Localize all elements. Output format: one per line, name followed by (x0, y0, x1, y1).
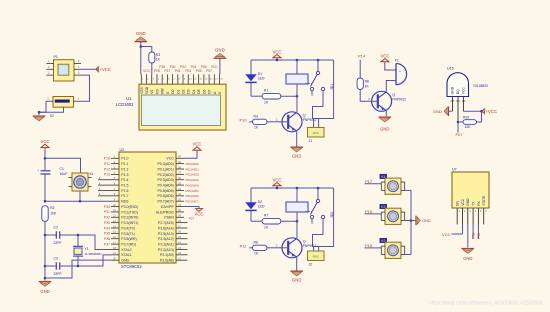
wire RES net (45, 200, 111, 202)
power VCC (relay JD1) (272, 50, 281, 61)
svg-text:R2: R2 (50, 206, 54, 210)
svg-text:PSEN: PSEN (164, 216, 174, 220)
ground (LCD K) (214, 48, 227, 75)
svg-text:P03(AD3): P03(AD3) (186, 178, 199, 182)
svg-text:P1.0: P1.0 (121, 157, 128, 161)
net label P11 (240, 244, 253, 249)
capacitor C1 (37, 167, 67, 201)
svg-text:P10: P10 (104, 157, 110, 161)
net label P10 (239, 118, 252, 123)
svg-text:P2.1(A9): P2.1(A9) (160, 253, 174, 257)
svg-text:P2.4(A12): P2.4(A12) (158, 237, 174, 241)
svg-text:F1: F1 (395, 58, 399, 62)
svg-text:P27: P27 (455, 132, 463, 137)
connector J2 (308, 251, 325, 266)
resistor R2 (42, 206, 57, 281)
svg-text:VCC: VCC (194, 211, 203, 216)
power VCC (MCU pin 40) (184, 141, 202, 158)
svg-text:P3.7(RD): P3.7(RD) (121, 242, 136, 246)
wire buzzer to collector (386, 81, 396, 93)
wire buttons GND rail (410, 190, 416, 254)
svg-text:P15: P15 (365, 243, 373, 248)
svg-text:1K: 1K (365, 85, 370, 89)
MCU right net labels AD0-AD7 (186, 162, 199, 204)
power VCC (buzzer) (380, 54, 396, 70)
svg-text:22PF: 22PF (54, 272, 62, 276)
svg-text:R7: R7 (264, 213, 268, 217)
svg-text:Y1: Y1 (85, 247, 89, 251)
net label P31 (U7 TX) (472, 225, 476, 240)
svg-text:J1: J1 (309, 139, 313, 143)
svg-text:P2.2(A10): P2.2(A10) (158, 248, 174, 252)
ground (MCU) (39, 282, 52, 294)
svg-text:+: + (399, 69, 401, 73)
resistor R6 (253, 241, 283, 256)
svg-text:+VCC: +VCC (100, 67, 111, 72)
svg-text:STATE: STATE (482, 195, 486, 206)
svg-text:VCC: VCC (143, 69, 150, 73)
svg-text:V0: V0 (150, 90, 154, 94)
svg-text:P05(AD5): P05(AD5) (186, 189, 199, 193)
svg-text:C1: C1 (60, 167, 64, 171)
resistor R8 (357, 78, 372, 101)
wire P1 pin5 to S2 (80, 75, 90, 101)
svg-text:K1: K1 (90, 172, 94, 176)
MCU P14-P17 wires (98, 177, 111, 196)
power VCC (U7) (442, 225, 462, 238)
transistor Q3 (372, 91, 407, 111)
push button K3 (380, 204, 405, 224)
svg-text:RES: RES (121, 200, 129, 204)
svg-text:P07: P07 (206, 69, 212, 73)
wire XTAL2 (78, 235, 111, 249)
buzzer F1 (395, 58, 407, 84)
wire S2 to ground (38, 101, 64, 115)
MCU left net labels P10-P13 (104, 157, 110, 177)
power +VCC (P1 pin 4) (81, 67, 111, 72)
svg-text:P36: P36 (104, 237, 110, 241)
wire contacts to connector (313, 60, 334, 128)
wire VCC rail (251, 187, 334, 190)
wire XTAL1 (78, 255, 111, 266)
svg-text:P13: P13 (104, 173, 110, 177)
svg-text:P2.3(A11): P2.3(A11) (158, 242, 174, 246)
svg-text:J2: J2 (309, 262, 313, 266)
svg-text:S2: S2 (50, 114, 54, 118)
svg-text:GND: GND (136, 31, 146, 36)
svg-text:R20: R20 (463, 115, 469, 119)
svg-text:P16: P16 (365, 209, 373, 214)
svg-text:DS18B20: DS18B20 (474, 84, 489, 88)
svg-text:P3.5(T1): P3.5(T1) (121, 232, 135, 236)
svg-text:P30: P30 (477, 233, 481, 239)
svg-text:RS: RS (155, 88, 159, 93)
LCD net labels (143, 65, 218, 73)
svg-text:10uF: 10uF (60, 172, 68, 176)
svg-text:GND: GND (40, 289, 49, 294)
connector P1 (47, 55, 82, 81)
connector J1 (308, 128, 325, 143)
svg-text:DQ: DQ (456, 89, 460, 94)
resistor R4 (253, 115, 283, 130)
net label P27 (455, 122, 463, 137)
svg-text:P1.5: P1.5 (121, 184, 128, 188)
capacitor C3 (45, 256, 78, 275)
svg-text:1K: 1K (264, 100, 269, 104)
svg-text:LED: LED (258, 205, 265, 209)
relay coil JD1 (286, 60, 308, 112)
LED D2 (245, 188, 265, 221)
power VCC (relay JD2) (272, 178, 281, 189)
svg-text:R4: R4 (254, 115, 258, 119)
svg-text:GND: GND (121, 259, 129, 263)
relay contacts JD2 (306, 188, 335, 224)
svg-text:VCC: VCC (442, 232, 451, 237)
svg-text:C2: C2 (54, 225, 58, 229)
resistor R3 (141, 47, 161, 75)
svg-text:P27: P27 (165, 69, 171, 73)
svg-text:D2: D2 (182, 89, 186, 93)
push button K1 (reset) (69, 172, 94, 203)
svg-text:P3.6(WR): P3.6(WR) (121, 237, 136, 241)
svg-text:D6: D6 (202, 89, 206, 93)
svg-text:VDD: VDD (145, 86, 149, 94)
svg-text:P06(AD6): P06(AD6) (186, 194, 199, 198)
svg-text:P30: P30 (104, 205, 110, 209)
wire contacts to connector (313, 188, 334, 251)
module U7 (452, 168, 489, 208)
wire U7 GND (467, 225, 469, 248)
svg-text:XTAL1: XTAL1 (121, 253, 131, 257)
MCU pins (111, 156, 188, 261)
ground (Q3) (379, 117, 392, 131)
svg-text:P31: P31 (472, 233, 476, 239)
svg-text:P3.4(T0): P3.4(T0) (121, 226, 135, 230)
svg-text:VCC: VCC (40, 139, 49, 144)
svg-text:RW: RW (161, 87, 165, 93)
ground (Q1) (290, 147, 303, 158)
wire emitter to ground (296, 131, 298, 147)
svg-text:+: + (37, 169, 39, 173)
svg-text:D2: D2 (258, 200, 262, 204)
svg-text:22PF: 22PF (54, 241, 62, 245)
relay coil JD2 (286, 188, 308, 238)
ground (DS18B20) (433, 106, 453, 116)
svg-text:P04(AD4): P04(AD4) (186, 183, 199, 187)
svg-text:VCC: VCC (192, 141, 201, 146)
wire MCU GND (45, 260, 111, 278)
svg-text:U15: U15 (447, 66, 454, 70)
svg-text:P2.6(A14): P2.6(A14) (158, 226, 174, 230)
ground (LCD VSS) (135, 31, 148, 74)
svg-text:P34: P34 (104, 226, 110, 230)
power VCC (EA/VPP) (184, 207, 204, 221)
svg-text:P1: P1 (54, 55, 58, 59)
svg-text:11.0592MHz: 11.0592MHz (85, 252, 103, 256)
svg-text:P14: P14 (358, 54, 366, 59)
svg-text:P2.7(A15): P2.7(A15) (158, 221, 174, 225)
MCU left net labels P30-P37 (104, 205, 110, 247)
svg-text:P33: P33 (104, 221, 110, 225)
ground (S2) (33, 116, 46, 121)
svg-text:+VCC: +VCC (486, 109, 497, 114)
svg-text:PIN2: PIN2 (313, 255, 319, 259)
svg-text:P11: P11 (104, 162, 110, 166)
resistor R1 (251, 88, 298, 104)
svg-text:P2.5(A13): P2.5(A13) (158, 232, 174, 236)
svg-text:1K: 1K (264, 225, 269, 229)
transistor Q2 (282, 238, 317, 258)
svg-text:R8: R8 (365, 80, 369, 84)
svg-text:R6: R6 (254, 241, 258, 245)
svg-text:U2: U2 (120, 148, 125, 152)
svg-text:R3: R3 (156, 53, 160, 57)
svg-text:EN: EN (456, 201, 460, 206)
svg-text:D4: D4 (192, 89, 196, 93)
svg-text:P03: P03 (185, 69, 191, 73)
svg-text:ALE/PROG: ALE/PROG (156, 210, 174, 214)
svg-text:P17: P17 (365, 179, 373, 184)
svg-text:10K: 10K (465, 125, 472, 129)
svg-text:P0.2(AD2): P0.2(AD2) (157, 173, 173, 177)
svg-text:LCD1602: LCD1602 (116, 102, 134, 107)
wire VCC rail (251, 59, 334, 62)
svg-text:XTAL2: XTAL2 (121, 248, 131, 252)
svg-text:RX: RX (477, 200, 481, 205)
svg-text:10K: 10K (50, 211, 57, 215)
U7 pins (457, 208, 487, 225)
svg-text:P1.2: P1.2 (121, 167, 128, 171)
svg-text:GND: GND (215, 48, 225, 53)
svg-text:STC89C52: STC89C52 (121, 264, 142, 269)
svg-text:D0: D0 (171, 89, 175, 93)
svg-text:GND: GND (466, 198, 470, 206)
svg-text:VSS: VSS (140, 86, 144, 93)
svg-text:C3: C3 (54, 256, 58, 260)
svg-text:PNP9012: PNP9012 (392, 98, 406, 102)
svg-text:PNP9012: PNP9012 (303, 118, 317, 122)
svg-text:P05: P05 (196, 69, 202, 73)
svg-text:D1: D1 (258, 72, 262, 76)
crystal Y1 11.0592MHz (73, 234, 102, 268)
LCD pins (141, 74, 223, 84)
push button K4 (380, 174, 405, 194)
svg-text:U7: U7 (452, 168, 457, 172)
LED D1 (245, 60, 265, 96)
svg-text:P0.0(AD0): P0.0(AD0) (157, 162, 173, 166)
svg-text:GND: GND (463, 256, 472, 261)
svg-text:VCC: VCC (380, 54, 389, 59)
svg-text:P0.6(AD6): P0.6(AD6) (157, 194, 173, 198)
svg-text:GND: GND (433, 109, 442, 114)
svg-text:P01: P01 (175, 69, 181, 73)
wire K2 to GND rail (405, 254, 411, 256)
svg-text:EA/VPP: EA/VPP (161, 205, 174, 209)
wire K3 to GND rail (405, 220, 411, 222)
svg-text:P1.6: P1.6 (121, 189, 128, 193)
svg-text:P0.4(AD4): P0.4(AD4) (157, 184, 173, 188)
svg-text:VCC: VCC (272, 50, 281, 55)
svg-text:VCC: VCC (166, 157, 174, 161)
MCU U2 STC89C52 (119, 148, 176, 269)
svg-text:1K: 1K (156, 58, 161, 62)
svg-text:GND: GND (451, 86, 455, 94)
svg-text:P27: P27 (189, 217, 195, 221)
wire K4 to GND rail (405, 189, 411, 191)
svg-text:https://blog.csdn.net/weixin_4: https://blog.csdn.net/weixin_42502606, 4… (429, 300, 543, 306)
svg-text:P25: P25 (154, 69, 160, 73)
wire VCC to K1 (44, 157, 81, 173)
svg-text:P01(AD1): P01(AD1) (186, 167, 199, 171)
svg-text:P31: P31 (104, 210, 110, 214)
svg-text:R1: R1 (264, 88, 268, 92)
svg-text:GND: GND (380, 127, 389, 132)
ground (Q2) (290, 271, 303, 282)
svg-text:GND: GND (292, 153, 301, 158)
svg-text:P3.0(RXD): P3.0(RXD) (121, 205, 138, 209)
svg-text:VCC: VCC (211, 65, 218, 69)
svg-text:P02(AD2): P02(AD2) (186, 173, 199, 177)
svg-text:Q: Q (392, 93, 395, 97)
svg-text:VCC: VCC (272, 178, 281, 183)
svg-text:P0.7(AD7): P0.7(AD7) (157, 200, 173, 204)
relay contacts JD1 (306, 60, 335, 96)
watermark (429, 300, 543, 306)
svg-text:PIN2: PIN2 (313, 131, 319, 135)
svg-text:P0.3(AD3): P0.3(AD3) (157, 178, 173, 182)
power +VCC (DS18B20) (464, 109, 497, 114)
net label P16 (365, 209, 382, 214)
svg-text:VCC: VCC (461, 198, 465, 206)
svg-text:LED: LED (258, 77, 265, 81)
svg-text:P1.4: P1.4 (121, 178, 128, 182)
net label P30 (U7 RX) (477, 225, 481, 240)
svg-text:P1.7: P1.7 (121, 194, 128, 198)
svg-text:GND: GND (422, 219, 431, 223)
resistor R20 (457, 111, 482, 129)
wire Q3 emitter to ground (385, 111, 387, 117)
svg-text:VCC: VCC (462, 87, 466, 95)
svg-text:P07(AD7): P07(AD7) (186, 199, 199, 203)
svg-text:P1.1: P1.1 (121, 162, 128, 166)
resistor R7 (251, 213, 298, 229)
svg-text:P00(AD0): P00(AD0) (186, 162, 199, 166)
svg-text:P12: P12 (104, 167, 110, 171)
push button K2 (380, 238, 405, 258)
svg-text:D1: D1 (176, 89, 180, 93)
svg-text:Q: Q (303, 114, 306, 118)
svg-text:P10: P10 (239, 118, 247, 123)
net label P15 (365, 243, 382, 248)
svg-text:GND: GND (292, 277, 301, 282)
svg-text:P11: P11 (240, 244, 248, 249)
svg-text:P3.1(TXD): P3.1(TXD) (121, 210, 138, 214)
net label P14 (358, 54, 366, 78)
svg-text:P32: P32 (104, 216, 110, 220)
svg-text:P3.2(INT0): P3.2(INT0) (121, 216, 138, 220)
LCD U1 LCD1602 (116, 84, 226, 130)
svg-text:P2.0(A8): P2.0(A8) (160, 259, 174, 263)
svg-text:D5: D5 (197, 89, 201, 93)
svg-text:P0.5(AD5): P0.5(AD5) (157, 189, 173, 193)
svg-text:P0.1(AD1): P0.1(AD1) (157, 167, 173, 171)
capacitor C2 (45, 225, 78, 244)
svg-text:P3.3(INT1): P3.3(INT1) (121, 221, 138, 225)
svg-text:D7: D7 (208, 89, 212, 93)
ground (U7) (462, 249, 475, 261)
power VCC (reset circuit) (40, 139, 49, 170)
ground (buttons) (416, 216, 431, 226)
sensor U5 DS18B20 (447, 66, 488, 122)
transistor Q1 (282, 112, 317, 132)
svg-text:P35: P35 (104, 232, 110, 236)
svg-text:P37: P37 (104, 242, 110, 246)
svg-text:PNP9012: PNP9012 (303, 244, 317, 248)
net label P17 (365, 179, 382, 184)
wire emitter to ground (296, 257, 298, 271)
svg-text:1K: 1K (254, 126, 259, 130)
svg-text:D3: D3 (187, 89, 191, 93)
switch S2 (46, 97, 80, 119)
svg-text:P1.3: P1.3 (121, 173, 128, 177)
svg-text:U1: U1 (126, 96, 132, 101)
svg-text:Q: Q (303, 240, 306, 244)
svg-text:1K: 1K (254, 252, 259, 256)
